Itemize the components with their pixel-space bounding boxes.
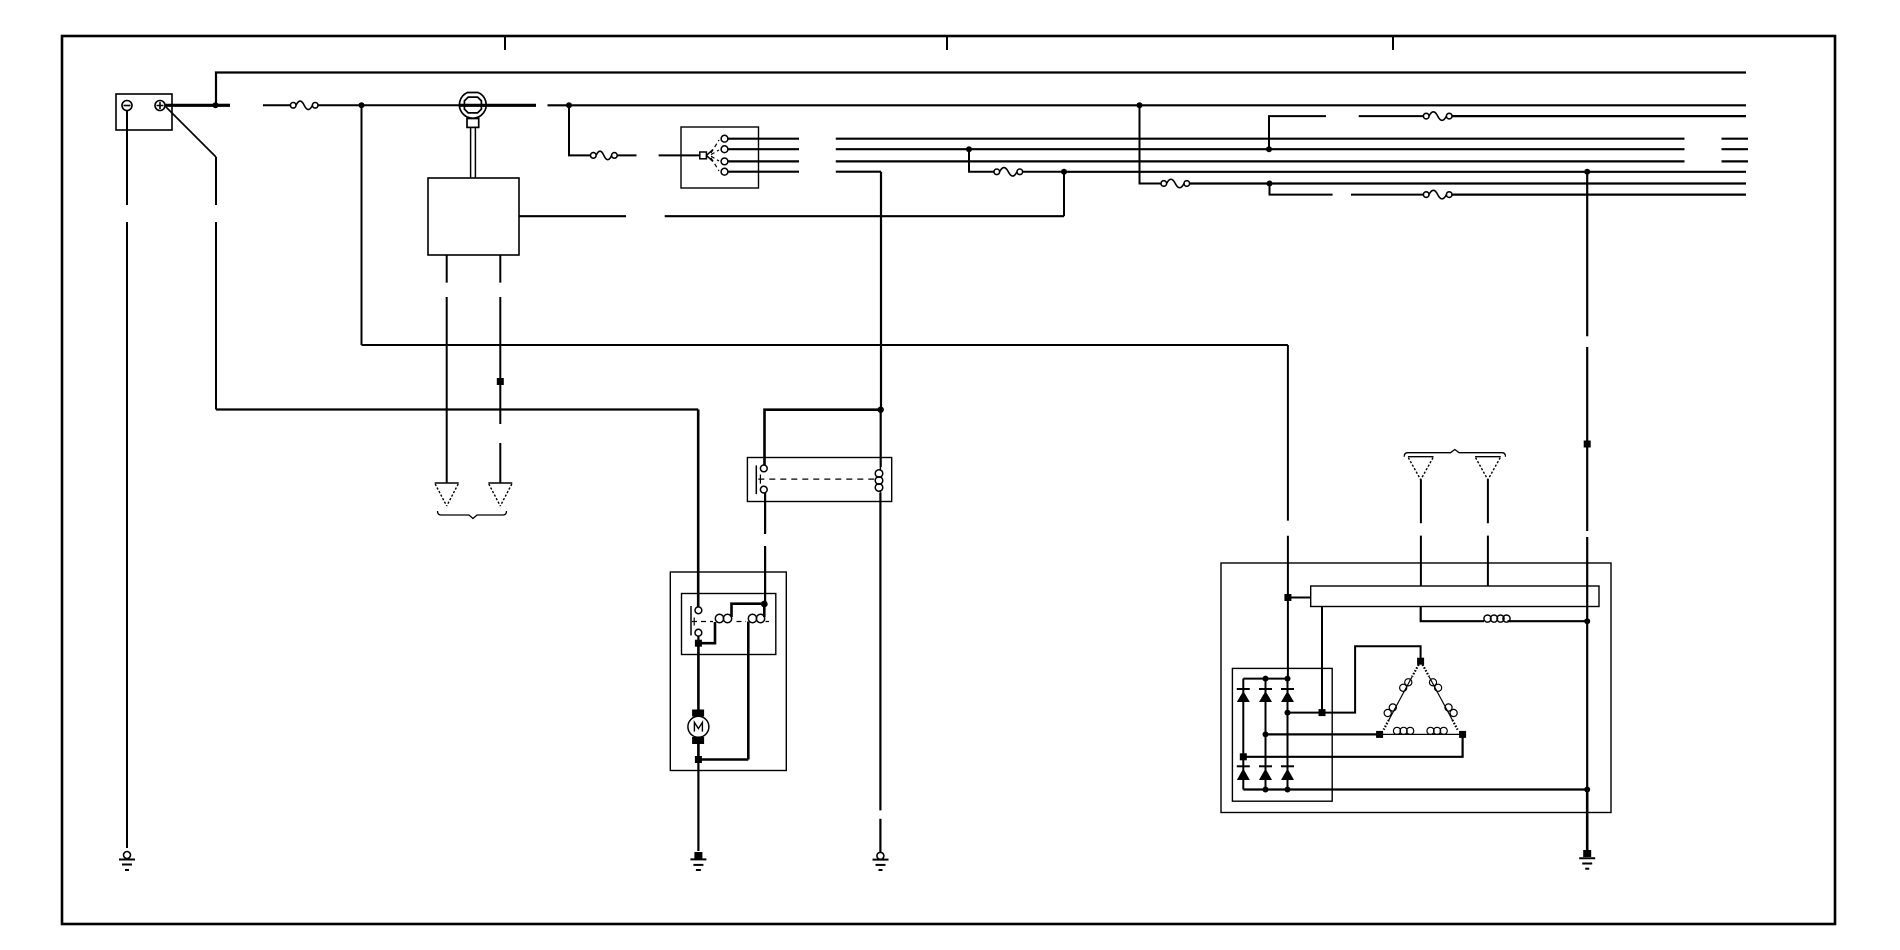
wire bus y161.4 bbox=[836, 160, 1748, 162]
wire stator feed path bbox=[1288, 646, 1421, 712]
diode D3 bbox=[1281, 689, 1294, 702]
warning lamp arrow left bbox=[1408, 457, 1434, 480]
wire x698 down to starter bbox=[697, 410, 700, 608]
rectifier diode box bbox=[1232, 668, 1332, 801]
node junction x361 bbox=[359, 102, 365, 108]
ignition switch box bbox=[681, 127, 759, 188]
wire alternator right vertical from bus (gaps) bbox=[1586, 172, 1588, 621]
relay contact bar bbox=[755, 465, 757, 494]
node dot top bus right bbox=[1285, 676, 1291, 682]
node junction field/ground line bbox=[1584, 618, 1590, 624]
wire connector to switch common bbox=[659, 154, 700, 156]
wire starter ground bbox=[697, 760, 699, 852]
starter solenoid inner box bbox=[682, 594, 776, 655]
relay armature tick bbox=[759, 475, 761, 484]
node dot bottom bus right-col bbox=[1285, 787, 1291, 793]
relay coil feed corner bbox=[765, 410, 882, 465]
diode D2 bbox=[1259, 689, 1272, 702]
node junction motor top bbox=[695, 640, 702, 647]
wire arrow left down (gap) bbox=[1420, 480, 1422, 586]
node junction x1139.5 on main line bbox=[1137, 102, 1143, 108]
relay top contact bbox=[760, 465, 767, 472]
wire delta right output bbox=[1243, 734, 1462, 756]
diode D5 bbox=[1259, 766, 1272, 780]
wire x216 down to y410 corner (with connector gap) bbox=[215, 157, 217, 410]
node junction x569 bbox=[566, 102, 572, 108]
wire fuse F2 to connector gap bbox=[617, 154, 636, 156]
frame tick 1 bbox=[504, 37, 506, 50]
alternator outer box bbox=[1221, 563, 1611, 813]
arrow terminal right bbox=[488, 483, 512, 506]
wire regulator to field coil line bbox=[1421, 607, 1484, 622]
ignition key symbol bbox=[459, 93, 486, 179]
diode top bus bbox=[1243, 678, 1287, 680]
node square left column y756.8 bbox=[1240, 753, 1247, 760]
node square connector on right leg bbox=[497, 378, 504, 385]
node square delta left vertex bbox=[1376, 731, 1383, 738]
solenoid contact bar bbox=[690, 606, 692, 636]
ignition coil unit box bbox=[428, 178, 519, 255]
battery positive terminal bbox=[155, 101, 165, 111]
battery negative terminal bbox=[122, 101, 132, 111]
wire bus IG1 y138.7 bbox=[836, 138, 1748, 140]
node square connector on x1288 regulator pin bbox=[1284, 594, 1291, 601]
stator delta bottom side bbox=[1380, 727, 1463, 734]
diode D1 bbox=[1237, 689, 1250, 702]
solenoid dashed actuation line bbox=[692, 621, 769, 623]
switch common contact bbox=[700, 150, 713, 162]
frame tick 3 bbox=[1392, 37, 1394, 50]
wire main line y105 segments bbox=[216, 104, 231, 107]
wire coil1 left down to junction bbox=[698, 622, 715, 643]
node square regulator pin2 bbox=[1319, 709, 1326, 716]
starter motor outer box bbox=[670, 572, 786, 771]
wire relay coil to ground bbox=[879, 493, 881, 853]
wire y116 to right edge bbox=[1452, 115, 1746, 117]
wire contact4 out bbox=[728, 171, 799, 173]
switch contact pin 2 bbox=[721, 146, 728, 153]
node square delta right vertex bbox=[1459, 731, 1466, 738]
diode column right bbox=[1287, 679, 1289, 790]
wire bus IG2 y149.2 bbox=[836, 148, 1748, 150]
node dot top bus mid bbox=[1263, 676, 1269, 682]
node junction x1587 y171.8 bbox=[1584, 169, 1590, 175]
node junction x881 y409.7 bbox=[878, 407, 884, 413]
wire y345 across to alternator bbox=[362, 344, 1288, 346]
wire x1288 down into alternator (gap at 521) bbox=[1287, 345, 1289, 679]
fuse F1 bbox=[290, 101, 318, 110]
field coil winding bbox=[1484, 615, 1510, 622]
node dot bottom bus mid bbox=[1263, 787, 1269, 793]
wire field coil to right vertical bbox=[1508, 620, 1588, 622]
wire y194.6 after gap with fuse F6 bbox=[1351, 194, 1423, 196]
node junction x1064 bbox=[1061, 169, 1067, 175]
switch contact pin 4 bbox=[721, 168, 728, 175]
stator delta left side bbox=[1384, 665, 1419, 730]
wire x881 down to relay bbox=[880, 172, 882, 410]
diode bottom bus bbox=[1243, 788, 1587, 790]
wire top feed line y72 bbox=[216, 73, 1746, 106]
relay armature dashed line bbox=[758, 478, 875, 480]
switch contact pin 1 bbox=[721, 135, 728, 142]
brace under arrows bbox=[438, 511, 507, 519]
ground G3 relay coil bbox=[873, 852, 889, 870]
node battery positive junction bbox=[213, 102, 219, 108]
relay coil winding bbox=[875, 467, 883, 493]
ground G4 alternator bbox=[1579, 850, 1595, 869]
wire regulator pin2 down bbox=[1321, 607, 1323, 713]
solenoid armature tick bbox=[693, 618, 695, 626]
wire y194.6 to right edge bbox=[1452, 194, 1746, 196]
node junction right column y712.6 bbox=[1285, 710, 1291, 716]
node square delta top vertex bbox=[1417, 658, 1424, 665]
wire battery plus run y409.5 bbox=[216, 408, 698, 410]
brace above arrows bbox=[1404, 450, 1505, 457]
starter motor M bbox=[688, 710, 709, 745]
node junction mid column y734.4 bbox=[1263, 731, 1269, 737]
wire y116 after gap with fuse F5 bbox=[1359, 115, 1424, 117]
node junction 1270 y183.5 bbox=[1267, 181, 1273, 187]
wire junction down to coil2 right bbox=[763, 604, 766, 617]
solenoid hold-in coil bbox=[715, 614, 731, 622]
diode D6 bbox=[1281, 766, 1294, 780]
wire x361 down to y345 bbox=[361, 105, 363, 345]
wire junction to motor bbox=[697, 643, 700, 709]
node junction solenoid coils bbox=[761, 601, 768, 608]
wire x969 branch down to fuse F3 bbox=[969, 149, 994, 172]
wire ignition coil legs right (gaps) bbox=[499, 255, 501, 483]
wire coil box output y216 bbox=[519, 215, 1064, 217]
node square connector on x1587 bbox=[1584, 441, 1591, 448]
node junction x969 on y149 bbox=[966, 146, 972, 152]
ground G1 battery bbox=[119, 852, 135, 871]
switch wiper dashed fan bbox=[711, 140, 719, 171]
wire bottom contact to motor junction bbox=[697, 636, 699, 643]
wire branch up from y149 to y116 bbox=[1269, 116, 1326, 149]
wire delta left output bbox=[1266, 733, 1380, 735]
arrow terminal left (to distributor) bbox=[435, 483, 459, 506]
wire coil2 left down through box bbox=[747, 622, 750, 760]
wire regulator pin stub bbox=[1288, 597, 1311, 599]
wire branch down from y183.5 to y194.6 bbox=[1270, 184, 1333, 195]
wire battery negative down bbox=[126, 111, 128, 849]
diode column left bbox=[1242, 679, 1244, 790]
starter cut relay box bbox=[747, 458, 891, 502]
ground G2 starter bbox=[690, 852, 706, 870]
diode D4 bbox=[1237, 766, 1250, 780]
wire motor loop bottom bbox=[698, 758, 748, 761]
warning lamp arrow right bbox=[1475, 457, 1501, 480]
node junction 1269 y149.2 bbox=[1266, 146, 1272, 152]
wire bus ST y171.7 to corner bbox=[836, 171, 881, 173]
relay bottom contact bbox=[760, 486, 767, 493]
wire relay bottom contact down (gap) bbox=[764, 493, 766, 604]
wire arrow right down (gap) bbox=[1487, 480, 1489, 586]
solenoid pull-in coil bbox=[748, 614, 764, 622]
wire coil1 right up to junction bbox=[732, 604, 765, 617]
wire motor bottom bbox=[697, 744, 700, 760]
battery body bbox=[116, 94, 172, 130]
fuse F4 bbox=[1161, 179, 1190, 188]
wire contact2 out bbox=[728, 148, 799, 150]
node junction motor bottom bbox=[695, 756, 702, 763]
voltage regulator box bbox=[1311, 586, 1599, 607]
wire contact3 out bbox=[728, 160, 799, 162]
group: battery / ignition / starter section bbox=[116, 73, 1748, 871]
diode column mid bbox=[1265, 679, 1267, 790]
solenoid bottom contact bbox=[695, 629, 702, 636]
wire y171.8 to right edge bbox=[1064, 171, 1746, 173]
wire F4 to junction 1270 and right bbox=[1190, 182, 1746, 184]
wire ignition coil legs left (gap) bbox=[446, 255, 448, 483]
wire x1587 down to bottom bus bbox=[1586, 621, 1588, 789]
wire x1064 down to y216 bbox=[1063, 172, 1065, 216]
group: alternator section bbox=[1221, 169, 1611, 869]
wire x1587 to alternator ground bbox=[1586, 790, 1589, 851]
wire diagonal from positive terminal bbox=[166, 107, 216, 157]
fuse F6 bbox=[1423, 190, 1452, 199]
solenoid top contact bbox=[695, 607, 702, 614]
frame tick 2 bbox=[946, 37, 948, 50]
wire x569 down and right to fuse bbox=[569, 105, 591, 155]
fuse F5 bbox=[1423, 112, 1452, 121]
wire x881 relay coil top bbox=[880, 410, 882, 467]
wire battery positive to junction bbox=[165, 104, 216, 107]
wire contact1 out bbox=[728, 138, 799, 140]
fuse F2 bbox=[591, 151, 618, 160]
switch contact pin 3 bbox=[721, 158, 728, 165]
stator delta right side bbox=[1423, 665, 1458, 730]
node junction x1587 bottom bus bbox=[1584, 787, 1590, 793]
fuse F3 bbox=[994, 168, 1023, 177]
wire x1139.5 down to y183.5 bbox=[1140, 105, 1162, 183]
wire F3 to junction x1064 bbox=[1023, 171, 1064, 173]
